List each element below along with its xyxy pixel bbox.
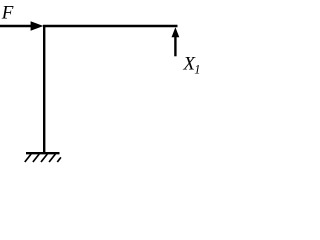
vertical member (column)	[43, 25, 45, 153]
redundant force X1 arrow shaft	[174, 34, 176, 56]
fixed support base line	[26, 152, 60, 154]
support hatch 4	[49, 154, 55, 162]
support hatch 5 (partial)	[57, 157, 61, 162]
force F arrowhead	[31, 21, 44, 31]
support hatch 3	[41, 154, 47, 162]
support hatch 2	[33, 154, 39, 162]
svg-text:1: 1	[194, 62, 200, 76]
force F arrow shaft	[0, 25, 32, 27]
support hatch 1	[25, 154, 31, 162]
X1 arrowhead	[172, 27, 180, 37]
svg-text:F: F	[1, 2, 14, 23]
top horizontal member	[43, 25, 178, 27]
